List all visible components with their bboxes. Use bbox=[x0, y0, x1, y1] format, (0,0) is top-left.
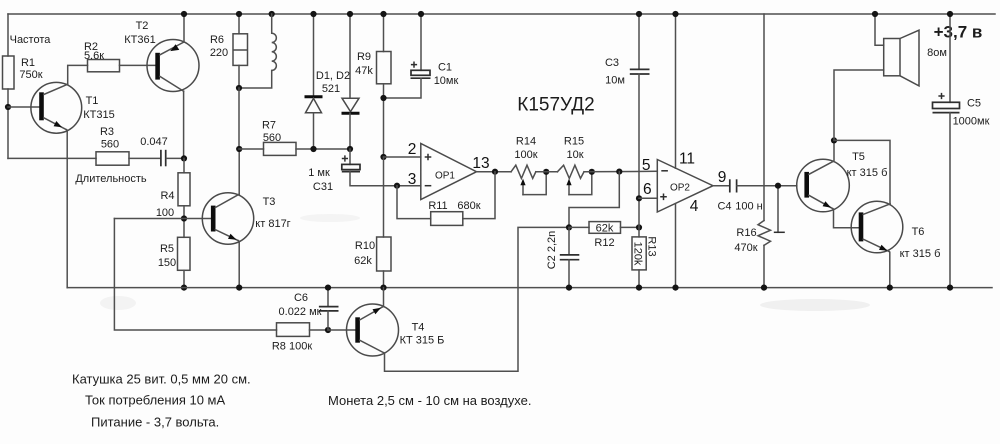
svg-text:C6: C6 bbox=[294, 292, 308, 304]
label R15 bbox=[564, 136, 584, 162]
svg-text:62k: 62k bbox=[596, 223, 614, 235]
svg-text:R12: R12 bbox=[594, 237, 614, 249]
label note power bbox=[91, 415, 219, 430]
svg-text:C3: C3 bbox=[605, 57, 619, 69]
wire OP2 pin 11 supply to rail bbox=[672, 11, 678, 168]
svg-text:R9: R9 bbox=[357, 51, 371, 63]
svg-text:10к: 10к bbox=[566, 149, 583, 161]
svg-text:0.047: 0.047 bbox=[140, 136, 168, 148]
svg-text:8ом: 8ом bbox=[927, 47, 947, 59]
svg-text:R10: R10 bbox=[355, 240, 375, 252]
label R14 bbox=[514, 136, 537, 162]
node OP2 plus input bbox=[636, 195, 642, 201]
label C2 rotated bbox=[546, 231, 558, 270]
label R1 value bbox=[10, 34, 52, 81]
svg-text:Частота: Частота bbox=[10, 34, 52, 46]
label OP2 pin 9 bbox=[718, 169, 727, 186]
svg-text:OP2: OP2 bbox=[670, 183, 690, 194]
resistor R4 bbox=[178, 173, 190, 206]
svg-text:6: 6 bbox=[643, 181, 652, 198]
wire T2 collector down bbox=[183, 91, 185, 158]
label T4 bbox=[400, 322, 445, 347]
wire top supply rail bbox=[8, 13, 995, 15]
label R5 bbox=[158, 243, 176, 269]
svg-text:R7: R7 bbox=[262, 120, 276, 132]
svg-text:560: 560 bbox=[263, 132, 281, 144]
svg-text:5.6к: 5.6к bbox=[84, 50, 104, 62]
svg-text:10мк: 10мк bbox=[434, 75, 459, 87]
label C5 bbox=[953, 98, 990, 128]
resistor R6 bbox=[233, 11, 248, 88]
wire T6 emitter to ground rail bbox=[887, 252, 893, 291]
svg-text:62k: 62k bbox=[354, 255, 372, 267]
wire ground bottom rail bbox=[67, 287, 992, 289]
resistor R7 bbox=[239, 142, 350, 155]
svg-text:R5: R5 bbox=[160, 243, 174, 255]
svg-text:OP1: OP1 bbox=[435, 171, 455, 182]
svg-text:+3,7 в: +3,7 в bbox=[934, 23, 983, 42]
svg-text:кт 315 б: кт 315 б bbox=[847, 167, 888, 179]
svg-text:КТ315: КТ315 bbox=[83, 109, 114, 121]
label C3 bbox=[605, 57, 625, 87]
wire R3 line bbox=[8, 157, 96, 159]
resistor R1 bbox=[3, 56, 15, 89]
wire R10 to ground rail bbox=[380, 271, 386, 291]
wire cap to node bbox=[167, 157, 185, 159]
resistor R8 bbox=[277, 323, 329, 337]
capacitor C1 bbox=[384, 11, 431, 98]
wire T4 base bbox=[328, 329, 355, 331]
svg-text:КТ 315 Б: КТ 315 Б bbox=[400, 335, 445, 347]
wire T2 emitter to rail bbox=[181, 11, 187, 42]
svg-text:T3: T3 bbox=[263, 196, 276, 208]
svg-text:T4: T4 bbox=[412, 322, 425, 334]
label R13 rotated bbox=[632, 236, 658, 266]
wire R2 to T2 base bbox=[120, 64, 156, 66]
svg-text:T2: T2 bbox=[136, 20, 149, 32]
svg-text:3: 3 bbox=[408, 171, 417, 188]
label C31 bbox=[308, 167, 333, 193]
label R3 bbox=[100, 126, 119, 151]
label speaker impedance bbox=[927, 47, 947, 59]
resistor R14 potentiometer bbox=[511, 165, 549, 194]
speaker LS bbox=[884, 30, 919, 86]
label T1 bbox=[83, 95, 114, 121]
capacitor C2 bbox=[560, 227, 580, 290]
diode D1 bbox=[305, 11, 323, 152]
label Dlitelnost bbox=[75, 173, 147, 185]
svg-text:C2 2,2n: C2 2,2n bbox=[546, 231, 558, 270]
wire T5 collector up to speaker node bbox=[831, 137, 837, 161]
label T2 bbox=[124, 20, 155, 46]
wire left vertical from rail to R3 line bbox=[7, 14, 9, 158]
svg-text:1 мк: 1 мк bbox=[308, 167, 330, 179]
svg-text:150: 150 bbox=[158, 257, 176, 269]
svg-text:Питание - 3,7 вольта.: Питание - 3,7 вольта. bbox=[91, 415, 219, 430]
svg-text:Катушка 25 вит. 0,5 мм 20 см.: Катушка 25 вит. 0,5 мм 20 см. bbox=[72, 372, 251, 387]
svg-text:R6: R6 bbox=[210, 34, 224, 46]
transistor T5 bbox=[797, 159, 850, 212]
svg-text:C4: C4 bbox=[717, 201, 731, 213]
wire R4 to base node bbox=[183, 206, 185, 238]
wire node to R4 bbox=[183, 158, 185, 172]
svg-text:Длительность: Длительность bbox=[75, 173, 147, 185]
wire R14 to R15 bbox=[536, 171, 558, 173]
wire speaker bottom terminal bbox=[834, 70, 884, 140]
svg-text:T6: T6 bbox=[912, 226, 925, 238]
capacitor C4 bbox=[730, 179, 797, 192]
svg-text:C1: C1 bbox=[438, 62, 452, 74]
wire T3 base left leg down bbox=[114, 219, 276, 331]
op-amp OP2 bbox=[657, 160, 713, 213]
svg-text:100к: 100к bbox=[514, 149, 537, 161]
svg-text:13: 13 bbox=[472, 155, 489, 172]
svg-text:9: 9 bbox=[718, 169, 727, 186]
node OP1 plus input bbox=[380, 154, 386, 160]
svg-text:R15: R15 bbox=[564, 136, 584, 148]
svg-text:220: 220 bbox=[210, 47, 228, 59]
label OP2 pin 4 bbox=[690, 198, 699, 215]
wire T1 base bbox=[8, 106, 40, 108]
resistor R5 bbox=[178, 237, 191, 270]
svg-text:R13: R13 bbox=[646, 236, 658, 256]
label K157UD2 bbox=[517, 95, 594, 116]
wire OP2 pin 4 to ground rail bbox=[672, 204, 678, 291]
capacitor C5 bbox=[933, 11, 960, 291]
resistor R12 bbox=[569, 222, 639, 234]
label R6 bbox=[210, 34, 228, 59]
svg-text:2: 2 bbox=[408, 141, 417, 158]
label note coil bbox=[72, 372, 251, 387]
resistor R10 bbox=[377, 237, 391, 271]
resistor R15 potentiometer bbox=[557, 165, 595, 194]
wire R3 to cap bbox=[129, 157, 160, 159]
wire T3 collector up bbox=[238, 149, 240, 194]
wire OP2 output to C4 bbox=[713, 185, 729, 187]
label C4 bbox=[717, 201, 762, 213]
svg-text:К157УД2: К157УД2 bbox=[517, 95, 594, 116]
wire R9 node down to R10 bbox=[383, 157, 385, 237]
label OP1 pin 2 bbox=[408, 141, 417, 158]
svg-text:R14: R14 bbox=[516, 136, 536, 148]
label R2 bbox=[84, 41, 104, 62]
label R7 bbox=[262, 120, 281, 145]
svg-text:Монета 2,5 см - 10 см на воз: Монета 2,5 см - 10 см на воздухе. bbox=[328, 393, 531, 408]
label D1 D2 bbox=[316, 70, 350, 95]
label OP1 pin 13 bbox=[472, 155, 489, 172]
transistor T6 bbox=[851, 201, 903, 253]
svg-text:кт 817г: кт 817г bbox=[255, 218, 290, 230]
wire T3 base line bbox=[114, 218, 211, 220]
wire R15 to OP2 minus input bbox=[584, 169, 657, 175]
label T5 bbox=[847, 151, 888, 179]
capacitor C6 bbox=[319, 285, 339, 331]
svg-text:4: 4 bbox=[690, 198, 699, 215]
label R8 bbox=[272, 341, 312, 353]
svg-text:11: 11 bbox=[679, 151, 695, 168]
svg-text:560: 560 bbox=[101, 139, 119, 151]
transistor T4 bbox=[347, 304, 399, 356]
wire collector node to T6 collector bbox=[834, 140, 890, 204]
resistor R13 bbox=[632, 227, 646, 290]
label OP2 pin 6 bbox=[643, 181, 652, 198]
label supply +3.7V bbox=[934, 23, 983, 42]
node T4 base junction bbox=[325, 327, 331, 333]
svg-text:0.022 мк: 0.022 мк bbox=[279, 306, 322, 318]
capacitor C31 bbox=[342, 149, 421, 186]
svg-text:470к: 470к bbox=[734, 242, 757, 254]
wire T4 collector loop to C2 node bbox=[384, 227, 569, 371]
label T3 bbox=[255, 196, 290, 230]
wire OP1 output bbox=[477, 169, 512, 175]
node R4 top bbox=[181, 155, 187, 161]
wire R6 junction down to R7 line bbox=[236, 88, 242, 152]
node C1-R9 junction bbox=[380, 95, 386, 101]
wire T5 emitter to T6 base bbox=[833, 209, 859, 228]
svg-text:R1: R1 bbox=[21, 57, 35, 69]
label R11 bbox=[428, 200, 480, 212]
wire T3 emitter to ground bbox=[236, 241, 242, 291]
resistor R16 potentiometer bbox=[758, 14, 785, 291]
label R16 bbox=[734, 227, 757, 254]
svg-text:кт 315 б: кт 315 б bbox=[900, 248, 941, 260]
label C6 bbox=[279, 292, 322, 318]
faint artifact smudges bbox=[100, 214, 870, 311]
label C1 bbox=[434, 62, 459, 88]
svg-text:R16: R16 bbox=[736, 227, 756, 239]
resistor R2 bbox=[88, 60, 120, 72]
wire OP1 plus input bbox=[384, 156, 421, 158]
transistor T1 bbox=[31, 82, 82, 133]
resistor R9 bbox=[377, 11, 392, 157]
label R4 bbox=[156, 190, 175, 219]
label R12 bbox=[594, 223, 614, 250]
wire T4 emitter to ground rail bbox=[382, 288, 385, 307]
node base T1 junction bbox=[5, 104, 11, 110]
svg-text:КТ361: КТ361 bbox=[124, 34, 155, 46]
wire OP2 plus input bbox=[639, 197, 657, 199]
svg-text:R3: R3 bbox=[100, 126, 114, 138]
resistor R11 bbox=[431, 212, 463, 226]
transistor T3 bbox=[202, 193, 253, 244]
wire T1 emitter down to ground rail bbox=[65, 130, 68, 288]
svg-text:D1, D2: D1, D2 bbox=[316, 70, 350, 82]
svg-text:R11: R11 bbox=[428, 200, 447, 212]
transistor T2 bbox=[147, 40, 199, 92]
svg-text:1000мк: 1000мк bbox=[953, 116, 990, 128]
svg-text:C31: C31 bbox=[313, 181, 333, 193]
svg-text:C5: C5 bbox=[967, 98, 981, 110]
svg-text:521: 521 bbox=[322, 83, 340, 95]
svg-text:10м: 10м bbox=[605, 75, 625, 87]
node T3 base line junction bbox=[181, 215, 187, 221]
op-amp OP1 bbox=[421, 144, 477, 200]
svg-text:R4: R4 bbox=[160, 190, 174, 202]
wire T1 collector to R2 bbox=[68, 65, 88, 84]
label note coin bbox=[328, 393, 531, 408]
svg-text:5: 5 bbox=[642, 157, 651, 174]
resistor R3 bbox=[96, 152, 129, 165]
node R13 top bbox=[636, 224, 642, 230]
inductor coil L1 bbox=[236, 11, 276, 91]
node C2 R12 junction bbox=[566, 224, 572, 230]
svg-text:100 н: 100 н bbox=[735, 201, 762, 213]
label 0.047 bbox=[140, 136, 168, 148]
svg-text:Ток потребления 10 мА: Ток потребления 10 мА bbox=[85, 393, 225, 408]
label OP2 pin 5 bbox=[642, 157, 651, 174]
svg-text:T1: T1 bbox=[86, 95, 99, 107]
svg-text:680к: 680к bbox=[457, 200, 480, 212]
label note current bbox=[85, 393, 225, 408]
label R9 bbox=[355, 51, 373, 77]
svg-text:T5: T5 bbox=[852, 151, 865, 163]
label OP1 pin 3 bbox=[408, 171, 417, 188]
label R10 bbox=[354, 240, 375, 267]
svg-text:R8 100к: R8 100к bbox=[272, 341, 312, 353]
capacitor C3 bbox=[630, 11, 650, 228]
svg-text:100: 100 bbox=[156, 207, 174, 219]
wire R5 to ground rail bbox=[181, 270, 187, 290]
wire speaker top terminal from rail bbox=[872, 11, 884, 45]
wire OP1 feedback path bbox=[397, 172, 495, 219]
diode D2 bbox=[342, 11, 360, 152]
svg-text:47k: 47k bbox=[355, 65, 373, 77]
svg-text:120k: 120k bbox=[632, 242, 644, 266]
svg-text:750к: 750к bbox=[19, 69, 42, 81]
capacitor 0.047 bbox=[161, 150, 166, 167]
node OP1 minus feedback junction bbox=[394, 183, 400, 189]
label OP2 pin 11 bbox=[679, 151, 695, 168]
wire branch to C2 node bbox=[569, 172, 619, 228]
label T6 bbox=[900, 226, 941, 260]
